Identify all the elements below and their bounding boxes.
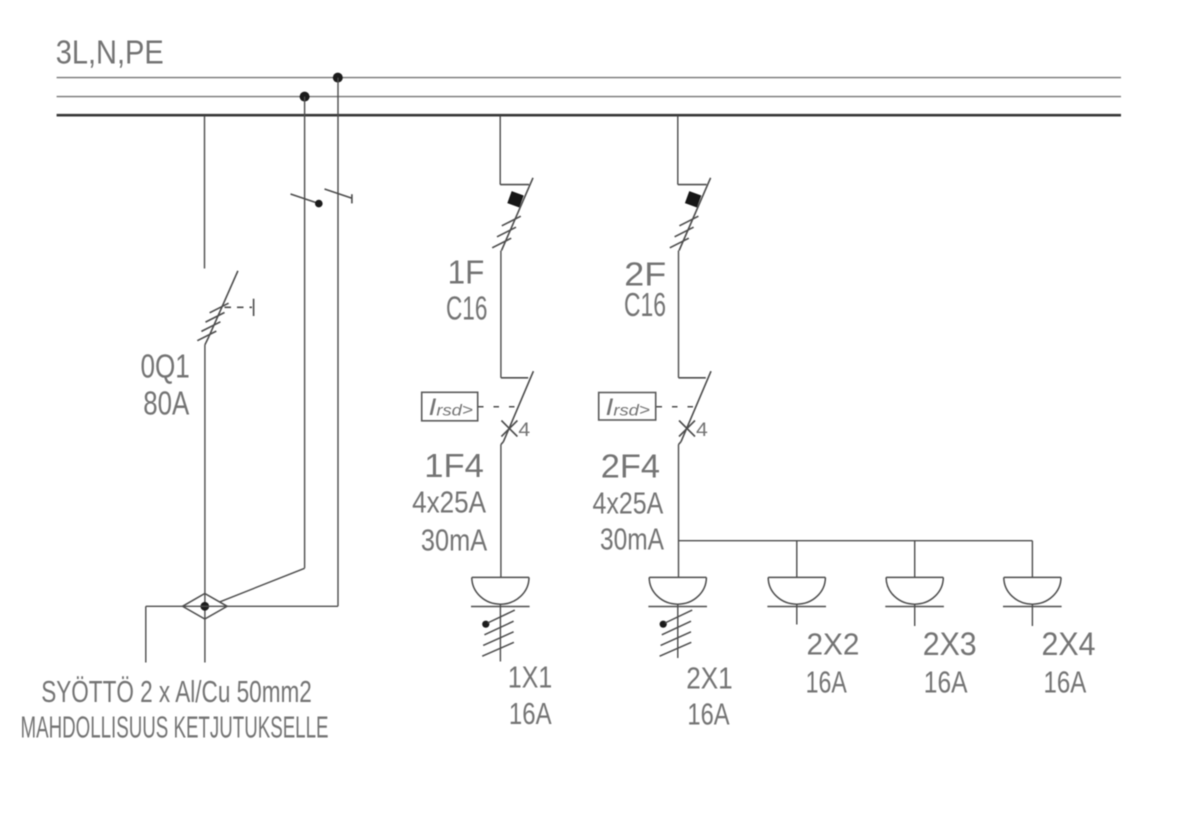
- feeder wire to 2X2..2X4: [679, 540, 1033, 542]
- svg-text:16A: 16A: [806, 665, 847, 700]
- svg-text:16A: 16A: [509, 696, 552, 731]
- label 80A: [143, 385, 189, 422]
- svg-text:C16: C16: [446, 290, 487, 327]
- wire drop to 2X4: [1031, 541, 1033, 578]
- label 16A (2X2): [806, 665, 847, 700]
- breaker 1F: [492, 178, 533, 251]
- wire 1F to RCD 1F4: [500, 251, 502, 378]
- svg-text:2X1: 2X1: [686, 661, 733, 696]
- junction dot on L1: [333, 73, 343, 83]
- label 30mA (1F4): [421, 523, 487, 558]
- label 2F4: [601, 448, 660, 485]
- relay box Irsd (2F4): [599, 393, 656, 422]
- svg-text:80A: 80A: [143, 385, 189, 422]
- svg-text:16A: 16A: [924, 665, 968, 700]
- wire 0Q1 to meter: [204, 345, 206, 663]
- label 4x25A (2F4): [593, 486, 664, 521]
- svg-text:1F4: 1F4: [424, 447, 484, 484]
- wire drop to 2X2: [796, 541, 798, 578]
- label 0Q1: [141, 348, 190, 385]
- socket outlet 1X1: [471, 577, 530, 661]
- svg-text:4: 4: [518, 420, 530, 441]
- svg-text:4: 4: [696, 420, 708, 441]
- wire horizontal through meter: [146, 605, 338, 607]
- wire bus L3 to breaker 1F: [499, 116, 501, 185]
- svg-text:30mA: 30mA: [421, 523, 487, 558]
- svg-text:3L,N,PE: 3L,N,PE: [56, 35, 164, 72]
- label 1F4: [424, 447, 484, 484]
- switch S0 (2-pole linked): [291, 189, 353, 207]
- label 1F: [448, 254, 485, 291]
- label 2X4: [1042, 626, 1096, 662]
- svg-text:C16: C16: [624, 286, 666, 323]
- wire vertical from L2 dot: [304, 97, 306, 569]
- pole count 4 (2F4): [696, 420, 708, 441]
- earth hatch 1X1: [482, 610, 515, 656]
- wire 1F4 to socket 1X1: [500, 445, 502, 578]
- wire vertical from L1 dot: [337, 78, 339, 607]
- RCD switch 2F4: [679, 371, 712, 444]
- note SYOTTO: [41, 675, 312, 709]
- svg-text:2F4: 2F4: [601, 448, 660, 485]
- socket outlet 2X1: [648, 577, 707, 658]
- relay box Irsd (1F4): [422, 392, 478, 421]
- net label 3L,N,PE: [56, 35, 164, 72]
- wire bus L3 to breaker 2F: [677, 116, 679, 185]
- label 30mA (2F4): [600, 522, 664, 557]
- label C16 (2F): [624, 286, 666, 323]
- svg-text:2X4: 2X4: [1042, 626, 1096, 662]
- label 2X1: [686, 661, 733, 696]
- svg-text:SYÖTTÖ 2 x Al/Cu 50mm2: SYÖTTÖ 2 x Al/Cu 50mm2: [41, 675, 312, 709]
- svg-text:2X2: 2X2: [807, 627, 860, 662]
- label 4x25A (1F4): [412, 485, 486, 520]
- label 16A (1X1): [509, 696, 552, 731]
- svg-text:1F: 1F: [448, 254, 485, 291]
- svg-text:2X3: 2X3: [923, 626, 977, 662]
- svg-text:1X1: 1X1: [508, 660, 552, 695]
- RCD switch 1F4: [501, 371, 534, 444]
- switch 0Q1: [197, 271, 253, 345]
- socket outlet 2X3: [885, 577, 944, 626]
- wire drop to 2X3: [914, 541, 916, 578]
- label C16: [446, 290, 487, 327]
- label 2X3: [923, 626, 977, 662]
- svg-text:4x25A: 4x25A: [412, 485, 486, 520]
- label 2X2: [807, 627, 860, 662]
- socket outlet 2X2: [767, 577, 826, 624]
- pole count 4 (1F4): [518, 420, 530, 441]
- svg-text:0Q1: 0Q1: [141, 348, 190, 385]
- breaker 2F: [670, 178, 711, 251]
- meter diamond: [183, 594, 228, 620]
- bus line L3 (heavy): [57, 114, 1121, 117]
- label 16A (2X1): [687, 697, 729, 732]
- earth hatch 2X1: [660, 610, 693, 656]
- svg-text:4x25A: 4x25A: [593, 486, 664, 521]
- dashed link 1F4: [478, 406, 517, 408]
- svg-text:16A: 16A: [687, 697, 729, 732]
- wire bus L3 to switch 0Q1: [204, 116, 206, 269]
- bus line L2: [57, 96, 1121, 98]
- note MAHDOLLISUUS: [21, 711, 329, 745]
- svg-text:MAHDOLLISUUS KETJUTUKSELLE: MAHDOLLISUUS KETJUTUKSELLE: [21, 711, 329, 745]
- junction dot on L2: [300, 92, 310, 102]
- wire left drop: [145, 606, 147, 662]
- wire diagonal to meter: [220, 568, 305, 602]
- svg-text:30mA: 30mA: [600, 522, 664, 557]
- label 2F: [624, 256, 666, 293]
- label 16A (2X3): [924, 665, 968, 700]
- wire 2F4 to socket 2X1: [678, 445, 680, 578]
- label 16A (2X4): [1044, 665, 1087, 700]
- wire 2F to RCD 2F4: [678, 251, 680, 378]
- dashed link 2F4: [657, 406, 696, 408]
- bus line L1: [57, 77, 1121, 79]
- label 1X1: [508, 660, 552, 695]
- svg-text:16A: 16A: [1044, 665, 1087, 700]
- socket outlet 2X4: [1003, 577, 1062, 626]
